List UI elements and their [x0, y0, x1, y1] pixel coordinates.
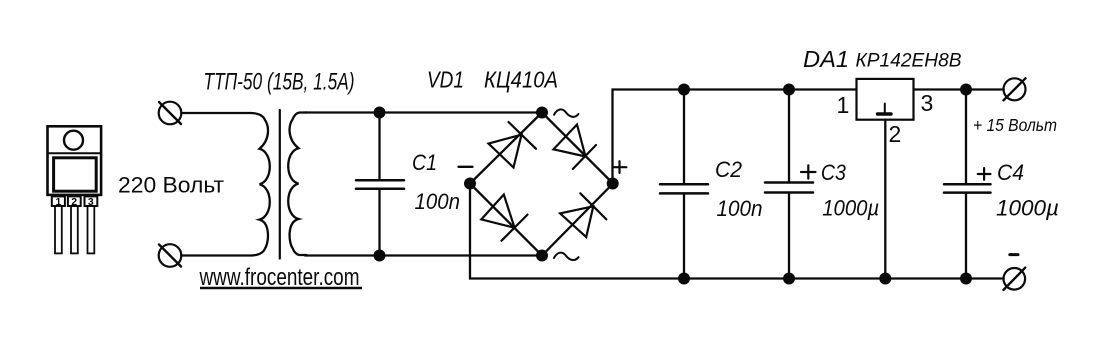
svg-text:DA1: DA1	[803, 46, 849, 72]
svg-text:КР142ЕН8В: КР142ЕН8В	[856, 51, 962, 72]
svg-text:1000µ: 1000µ	[822, 196, 879, 221]
svg-text:3: 3	[88, 196, 94, 208]
svg-text:C4: C4	[997, 160, 1024, 185]
svg-text:КЦ410А: КЦ410А	[484, 67, 558, 93]
svg-text:1: 1	[837, 92, 850, 118]
svg-text:2: 2	[889, 121, 902, 147]
svg-text:C3: C3	[821, 160, 846, 185]
svg-text:2: 2	[71, 196, 77, 208]
svg-text:100n: 100n	[415, 189, 461, 214]
svg-text:3: 3	[921, 90, 934, 116]
svg-text:+ 15 Вольт: + 15 Вольт	[973, 115, 1057, 135]
svg-text:ТТП-50 (15В, 1.5А): ТТП-50 (15В, 1.5А)	[204, 69, 355, 96]
svg-text:220 Вольт: 220 Вольт	[118, 173, 224, 198]
svg-text:C1: C1	[412, 150, 437, 175]
svg-text:VD1: VD1	[427, 67, 464, 93]
svg-text:1000µ: 1000µ	[996, 196, 1059, 221]
svg-text:1: 1	[56, 196, 62, 208]
svg-text:C2: C2	[715, 157, 742, 182]
svg-text:100n: 100n	[717, 196, 763, 221]
